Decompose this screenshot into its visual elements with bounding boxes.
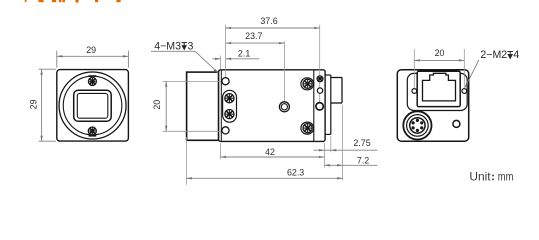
LED indicator [453, 120, 460, 127]
front bottom screw [88, 127, 96, 136]
svg-text:29: 29 [29, 99, 39, 109]
svg-text:2−M2: 2−M2 [480, 49, 507, 61]
power connector M8 [403, 111, 431, 139]
svg-text:29: 29 [86, 45, 96, 55]
dimension 7.2 [342, 105, 344, 181]
leader line for 4-M3 [151, 50, 195, 52]
back top panel [407, 73, 467, 110]
sensor window inner glass [77, 93, 108, 118]
svg-text:4−M3: 4−M3 [154, 40, 181, 52]
stadium screw lower [225, 110, 234, 119]
sensor window outer frame [74, 90, 112, 121]
svg-text:4: 4 [513, 49, 519, 61]
body rear seam line [313, 70, 315, 141]
front top screw [88, 76, 96, 85]
dimension 2.75 [330, 136, 332, 152]
dimension 29 left (front height) [39, 69, 56, 141]
svg-text:20: 20 [435, 48, 445, 58]
dimension 37.6 [226, 27, 320, 29]
dimension 37.6 extension lines [225, 25, 227, 78]
front lens mount inner ring [63, 76, 122, 135]
svg-text:2.75: 2.75 [353, 138, 370, 148]
dimension 23.7 extension line (tripod hole) [283, 41, 285, 102]
side body [219, 70, 326, 142]
dimension 42 [221, 143, 325, 167]
svg-text:3: 3 [188, 40, 194, 52]
svg-text:2.1: 2.1 [238, 48, 250, 58]
front lens mount outer circle [59, 72, 126, 139]
small rear screw [317, 76, 323, 82]
dimension 29 top (front width) [57, 51, 129, 68]
side right upper slot + screw [301, 78, 314, 90]
tripod mount hole (center) [279, 102, 289, 112]
cropped orange heading fragments [25, 0, 121, 3]
svg-text:37.6: 37.6 [260, 16, 277, 26]
RJ45 socket opening [423, 73, 456, 101]
RJ45 jack outer [417, 71, 460, 106]
side left mounting holes M3 [222, 78, 229, 85]
svg-text:20: 20 [152, 100, 162, 110]
svg-text:62.3: 62.3 [287, 167, 304, 177]
dimension 23.7 [226, 42, 285, 44]
body left inner edge line [220, 70, 222, 141]
dimension 20 (back) [414, 49, 464, 88]
dimension 20 (side, left) [163, 81, 221, 131]
rear connector block [331, 78, 342, 104]
small rear hole [317, 88, 322, 93]
M2 hole left [412, 89, 417, 94]
svg-text:mm: mm [498, 169, 514, 183]
svg-text:23.7: 23.7 [245, 31, 262, 41]
lens barrel [187, 72, 219, 140]
svg-text:7.2: 7.2 [357, 156, 369, 166]
dimension 62.3 [185, 137, 187, 185]
svg-text:42: 42 [265, 147, 275, 157]
back body square [397, 70, 468, 142]
side right lower slot + screw [301, 122, 314, 134]
side left stadium slot [223, 90, 237, 122]
leader line for 2-M2 [465, 60, 479, 87]
rear flange step [325, 75, 331, 134]
rear ring hole [316, 103, 323, 110]
stadium screw upper [225, 94, 234, 103]
dimension 2.1 [220, 56, 222, 69]
M2 hole right [462, 89, 467, 94]
front view body square [57, 70, 129, 142]
svg-text:Unit: Unit [469, 169, 491, 183]
